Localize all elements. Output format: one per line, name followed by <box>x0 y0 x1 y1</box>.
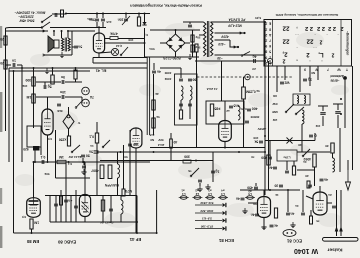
wire table drop1 <box>276 66 278 92</box>
switch wave 3 <box>302 149 310 157</box>
svg-text:50: 50 <box>86 154 90 158</box>
svg-text:. .: . . <box>295 33 298 38</box>
resistor R10 <box>25 77 35 86</box>
wire caps join <box>95 27 106 29</box>
svg-text:1n: 1n <box>12 59 16 63</box>
wire C5 down <box>102 22 104 28</box>
svg-text:4n: 4n <box>157 70 161 74</box>
svg-text:390: 390 <box>184 155 190 159</box>
label w250 <box>241 107 247 111</box>
tube V8 IF <box>130 128 142 148</box>
svg-text:50µ: 50µ <box>195 36 200 40</box>
capacitor C38 <box>109 209 113 211</box>
svg-text:100: 100 <box>253 136 258 140</box>
wire x97 <box>96 143 98 196</box>
resistor R20 <box>152 118 155 128</box>
pilot lamp La2 <box>267 58 272 63</box>
wire R5 up <box>138 14 140 18</box>
svg-text:5: 5 <box>269 50 271 54</box>
svg-text:6k8: 6k8 <box>57 109 62 113</box>
junction x341 a <box>340 98 342 100</box>
svg-text:50Hz 45W: 50Hz 45W <box>19 18 35 22</box>
svg-text:5n: 5n <box>89 150 93 154</box>
junction y162 b <box>68 161 70 163</box>
wire ant v <box>344 80 346 128</box>
label b1 <box>251 155 255 159</box>
wire x121 <box>120 196 122 200</box>
resistor R28 <box>30 219 39 229</box>
svg-text:.: . <box>314 33 315 38</box>
junction y22 a <box>264 21 266 23</box>
resistor R6 <box>191 35 194 42</box>
resistor R21 fuse <box>170 139 178 148</box>
label p2 <box>195 188 199 192</box>
svg-text:25: 25 <box>0 37 4 41</box>
capacitor C63 <box>270 224 278 228</box>
svg-text:EABC 80: EABC 80 <box>57 239 76 244</box>
svg-text:a2: a2 <box>195 188 199 192</box>
svg-text:EL41 4W: EL41 4W <box>68 155 82 159</box>
wire bridge left <box>160 42 166 44</box>
wire bridge top bus <box>150 29 200 31</box>
junction y232 a <box>136 232 138 234</box>
capacitor C32 <box>274 184 283 188</box>
wire x288 <box>287 190 289 212</box>
wire y196 <box>45 195 137 197</box>
wire bus y162L <box>33 161 150 163</box>
label 5k9 <box>156 115 160 119</box>
junction y13 b <box>102 13 104 15</box>
svg-text:100: 100 <box>133 143 139 147</box>
svg-text:1g: 1g <box>215 170 219 174</box>
label EABC80 <box>57 239 76 244</box>
junction y152 a <box>120 151 122 153</box>
label 420V <box>220 34 229 38</box>
wire C51 dn <box>199 183 201 186</box>
wire mains top <box>52 13 66 15</box>
capacitor C27 <box>303 78 312 82</box>
svg-text:20: 20 <box>305 174 309 178</box>
junction top bus b <box>102 13 104 15</box>
coil L12 <box>333 158 335 172</box>
label b5 <box>253 202 257 206</box>
wire EL41 to grid line <box>105 42 145 44</box>
wire box drop1 <box>34 150 36 162</box>
resistor R15 <box>57 155 66 164</box>
wire v x76 <box>75 190 77 222</box>
antenna terminal dot <box>343 76 347 80</box>
svg-text:W2: W2 <box>284 81 289 85</box>
capacitor C51 <box>198 180 202 182</box>
wire R6R7 <box>192 30 194 57</box>
EABC80 hatch <box>82 202 89 213</box>
svg-text:1630~520: 1630~520 <box>200 209 213 213</box>
voltage table divider right <box>340 20 342 67</box>
label 60d <box>164 77 171 81</box>
resistor R42 <box>331 143 334 153</box>
wire tap 420V <box>215 32 245 34</box>
terminal dot tap <box>237 32 246 48</box>
resistor R12 <box>51 75 54 84</box>
svg-text:50k: 50k <box>44 172 49 176</box>
svg-text:300: 300 <box>25 78 31 82</box>
svg-text:5,9~6,3: 5,9~6,3 <box>202 217 212 221</box>
coil L10 <box>304 96 306 104</box>
osc box <box>277 150 297 161</box>
svg-text:x250: x250 <box>59 138 67 142</box>
svg-text:102: 102 <box>315 124 320 128</box>
wire dipole feed L <box>336 190 338 236</box>
label 100pF <box>253 136 258 140</box>
svg-text:220/110V~: 220/110V~ <box>18 14 34 18</box>
svg-text:ECH 81: ECH 81 <box>218 238 234 243</box>
svg-text:9: 9 <box>304 68 306 72</box>
label ECH81 <box>218 238 234 243</box>
power transformer Tr1 core <box>207 21 208 57</box>
table header <box>275 13 338 17</box>
wire v x71 <box>70 196 72 222</box>
wire V7 up <box>319 186 321 192</box>
wire diamond dn <box>68 129 70 136</box>
resistor R18c <box>122 189 132 196</box>
terminal arrow tap2 <box>234 46 236 48</box>
socket TA2 <box>82 99 90 107</box>
wire R21 dn <box>170 148 172 161</box>
capacitor C4 <box>89 18 99 22</box>
EM80 target bars <box>29 201 39 205</box>
ground C14 <box>81 169 86 175</box>
svg-text:0,1: 0,1 <box>89 135 94 139</box>
svg-text:Q: Q <box>314 134 317 138</box>
wire ant T2 <box>333 103 343 105</box>
capacitor C22 <box>188 104 192 106</box>
svg-text:0,1: 0,1 <box>41 155 46 159</box>
ground C40 <box>261 224 266 230</box>
svg-text:50: 50 <box>253 202 257 206</box>
capacitor C60 <box>261 156 272 160</box>
wire L11 dn <box>301 124 303 136</box>
wire x111 <box>110 196 112 222</box>
junction y161 a <box>195 160 197 162</box>
svg-text:2: 2 <box>265 38 267 42</box>
junction y31 b <box>61 30 63 32</box>
svg-text:Antenne/: Antenne/ <box>329 74 345 78</box>
wire into box1 <box>160 67 181 69</box>
resistor R29 <box>60 196 63 205</box>
svg-text:F1 2mA: F1 2mA <box>207 87 218 91</box>
svg-text:W 1040: W 1040 <box>294 247 318 254</box>
wire TA wire <box>81 97 83 103</box>
svg-text:1M: 1M <box>26 95 31 99</box>
wire box1 int <box>180 100 182 110</box>
wire R21 up <box>170 133 172 139</box>
svg-text:40n: 40n <box>87 17 92 21</box>
wire x221 down <box>221 61 223 101</box>
junction lamp bus <box>144 42 146 44</box>
band plug 2 <box>223 211 226 215</box>
wire x322 dn <box>314 167 316 186</box>
label EM80 <box>26 239 39 244</box>
wire v x50 <box>49 196 51 222</box>
label EL41 4W <box>68 155 82 159</box>
svg-text:20: 20 <box>0 61 4 65</box>
wire C10b dn <box>44 82 46 85</box>
wire EF41 top <box>224 101 226 121</box>
label V8 right <box>149 133 154 137</box>
wire x348 up <box>347 160 349 170</box>
capacitor C35 <box>54 204 58 206</box>
svg-text:4007: 4007 <box>91 168 99 172</box>
table bottom ticks <box>304 68 348 72</box>
svg-text:2 2: 2 2 <box>305 25 313 31</box>
svg-text:0,5: 0,5 <box>22 215 27 219</box>
wire D1 up <box>144 14 146 23</box>
wire x93 v <box>92 58 94 64</box>
junction x137 <box>136 221 138 223</box>
capacitor C14 <box>82 166 86 168</box>
capacitor C44 <box>332 206 336 208</box>
resistor R14 block <box>33 146 40 151</box>
label 102 <box>315 124 320 128</box>
terminal arrow A <box>43 30 45 32</box>
ground mid2 <box>205 184 210 190</box>
svg-text:0: 0 <box>265 55 267 59</box>
svg-text:50n: 50n <box>149 47 154 51</box>
label TS <box>188 169 192 173</box>
resistor R31 <box>274 208 277 218</box>
svg-text:a4: a4 <box>221 188 225 192</box>
svg-text:L,: L, <box>318 51 324 57</box>
wire x103 <box>102 196 104 222</box>
wire bus y147 <box>150 147 265 149</box>
svg-text:450: 450 <box>247 186 253 190</box>
svg-text:4n: 4n <box>68 199 72 203</box>
wire tap mid drop <box>230 40 237 47</box>
svg-text:1n: 1n <box>90 144 94 148</box>
label TA <box>89 95 94 99</box>
junction y68 b <box>52 67 54 69</box>
wire trafo small <box>196 52 198 57</box>
capacitor C23 <box>229 104 239 108</box>
wire C25 stub <box>255 183 257 186</box>
svg-text:MW: MW <box>272 110 277 114</box>
svg-text:1M: 1M <box>34 221 39 225</box>
label FUN PPN <box>104 183 119 187</box>
wire C10 r <box>65 81 82 83</box>
svg-text:a5: a5 <box>248 189 252 193</box>
label PPV <box>158 143 166 147</box>
wire speaker bottom <box>44 54 72 56</box>
label winding 2 <box>227 23 242 27</box>
wire C3 stub <box>72 46 74 48</box>
svg-text:1k: 1k <box>275 193 279 197</box>
wire bridge top <box>175 30 177 34</box>
wire EF41 down <box>224 142 226 148</box>
svg-text:1M: 1M <box>59 155 64 159</box>
label F12mA <box>207 87 218 91</box>
wire x243 dn <box>243 99 245 148</box>
label 920 <box>23 147 29 151</box>
IF can box <box>27 126 41 147</box>
coil L11 <box>302 110 304 124</box>
svg-text:LW: LW <box>273 118 278 122</box>
wire bottom border <box>15 232 157 234</box>
IF can box T1 <box>175 74 198 125</box>
voltage table divider left <box>272 20 274 67</box>
label det <box>57 109 62 113</box>
wire v x66 <box>65 162 67 222</box>
svg-text:2: 2 <box>340 25 343 31</box>
wire net box right <box>50 27 95 29</box>
capacitor C25 <box>247 186 258 190</box>
wire tap mid <box>215 39 231 41</box>
capacitor C28 <box>320 113 325 115</box>
svg-text:4n: 4n <box>303 160 307 164</box>
svg-text:8: 8 <box>269 27 271 31</box>
label B250 C250 <box>163 56 180 60</box>
capacitor C41 <box>286 212 294 216</box>
label x265 <box>258 127 267 131</box>
wire ant T1 <box>318 105 328 107</box>
wire R4 left <box>105 38 110 40</box>
wire V6 up <box>263 190 265 197</box>
junction x265 b <box>264 151 266 153</box>
svg-text:~Bemerkungen: ~Bemerkungen <box>346 31 350 56</box>
label 60c <box>164 71 171 75</box>
wire V7 right <box>327 202 332 204</box>
svg-text:.: . <box>321 59 322 64</box>
wire bus y71 <box>9 70 90 72</box>
wire L5 dn <box>117 178 119 196</box>
coil L13 <box>121 200 123 214</box>
capacitor C53 <box>188 25 192 27</box>
svg-text:5n: 5n <box>78 45 82 49</box>
resistor R40 <box>59 136 71 146</box>
svg-text:.: . <box>326 33 327 38</box>
tube EM80 V4 <box>27 198 41 218</box>
wire table drop5 <box>317 66 319 80</box>
junction y232 c <box>31 232 33 234</box>
power transformer Tr1 secondary <box>211 22 213 56</box>
label 8uF <box>195 36 200 40</box>
svg-text:2V: 2V <box>252 67 256 71</box>
label p3 <box>208 188 212 192</box>
wire C14 up <box>83 162 85 165</box>
wire cap C2 stub <box>6 64 12 66</box>
coil L7 <box>190 86 192 100</box>
svg-text:KW: KW <box>272 102 277 106</box>
padder trimmer P5 <box>245 192 255 199</box>
dipole arrows <box>335 226 343 232</box>
junction y152 c <box>238 151 240 153</box>
svg-text:2: 2 <box>283 58 286 64</box>
junction y147 b <box>224 147 226 149</box>
capacitor C61 <box>247 107 257 111</box>
wire x130 <box>129 130 131 196</box>
resistor R11 <box>26 94 35 103</box>
label a2 <box>226 109 230 113</box>
junction y68 x22 <box>21 67 23 69</box>
svg-text:1g: 1g <box>308 78 312 82</box>
ground mid <box>290 222 295 228</box>
label ECC81 <box>286 238 302 243</box>
capacitor C15 <box>89 150 98 154</box>
wire sec top bus <box>68 30 95 32</box>
label p5 <box>248 189 252 193</box>
resistor R8 <box>195 44 198 52</box>
capacitor C3 <box>74 45 82 49</box>
wire bottom bus tm <box>145 56 200 58</box>
wire x302 osc <box>301 136 303 152</box>
wire y178 <box>56 177 91 179</box>
svg-text:30: 30 <box>325 144 329 148</box>
wire C18 up <box>153 63 155 70</box>
ground y68 <box>44 68 49 74</box>
svg-text:Kaiser-Radio-Werke, Kenzingen/: Kaiser-Radio-Werke, Kenzingen/Baden <box>130 3 202 8</box>
capacitor C50 <box>81 154 90 158</box>
wire V6 left <box>248 202 258 204</box>
svg-text:2 2: 2 2 <box>317 25 325 31</box>
svg-text:10k: 10k <box>22 84 27 88</box>
junction y190 a <box>269 189 271 191</box>
resistor R7 <box>191 45 194 52</box>
label EL41 <box>95 69 106 74</box>
svg-text:2: 2 <box>319 39 322 45</box>
label diamond <box>77 121 81 125</box>
resistor R16 <box>89 133 99 143</box>
svg-text:5g: 5g <box>48 85 52 89</box>
junction y162 a <box>34 161 36 163</box>
junction y162 c <box>47 161 49 163</box>
svg-text:9: 9 <box>265 44 267 48</box>
svg-text:2: 2 <box>265 33 267 37</box>
capacitor C19 <box>179 79 183 81</box>
label ZN500 <box>250 115 259 119</box>
wire x303 <box>302 190 304 212</box>
svg-text:+250V: +250V <box>258 127 267 131</box>
wire x315 corner <box>314 133 316 141</box>
label osc box <box>283 155 290 159</box>
band plug 1 <box>223 203 226 207</box>
label b9 <box>328 193 332 197</box>
wire y222 <box>50 221 137 223</box>
label 300V <box>255 16 261 20</box>
wire R12 up <box>52 68 54 75</box>
diamond det <box>63 114 74 129</box>
svg-text:M13 4,3V: M13 4,3V <box>227 23 242 27</box>
wire x243 <box>243 77 245 87</box>
label b8 <box>316 219 320 223</box>
svg-text:400: 400 <box>252 107 258 111</box>
wire box1 int2 <box>189 100 191 119</box>
resistor R32 <box>307 181 310 188</box>
label v x66 <box>68 162 73 166</box>
wire V2 down <box>47 135 49 162</box>
wire bridge bottom <box>175 52 177 57</box>
scan shading left edge <box>0 26 2 248</box>
resistor R22 <box>179 110 182 119</box>
svg-text:87,5~100: 87,5~100 <box>201 225 214 229</box>
capacitor C11 <box>60 90 66 99</box>
junction y68 c <box>75 67 77 69</box>
wire ant T2 dn <box>337 115 339 128</box>
svg-text:5k: 5k <box>256 89 260 93</box>
capacitor C64 <box>253 54 257 63</box>
wire y152 r <box>297 151 330 153</box>
table right caption <box>346 31 350 56</box>
wire EM80 top <box>33 162 35 198</box>
svg-text:40: 40 <box>173 140 177 144</box>
